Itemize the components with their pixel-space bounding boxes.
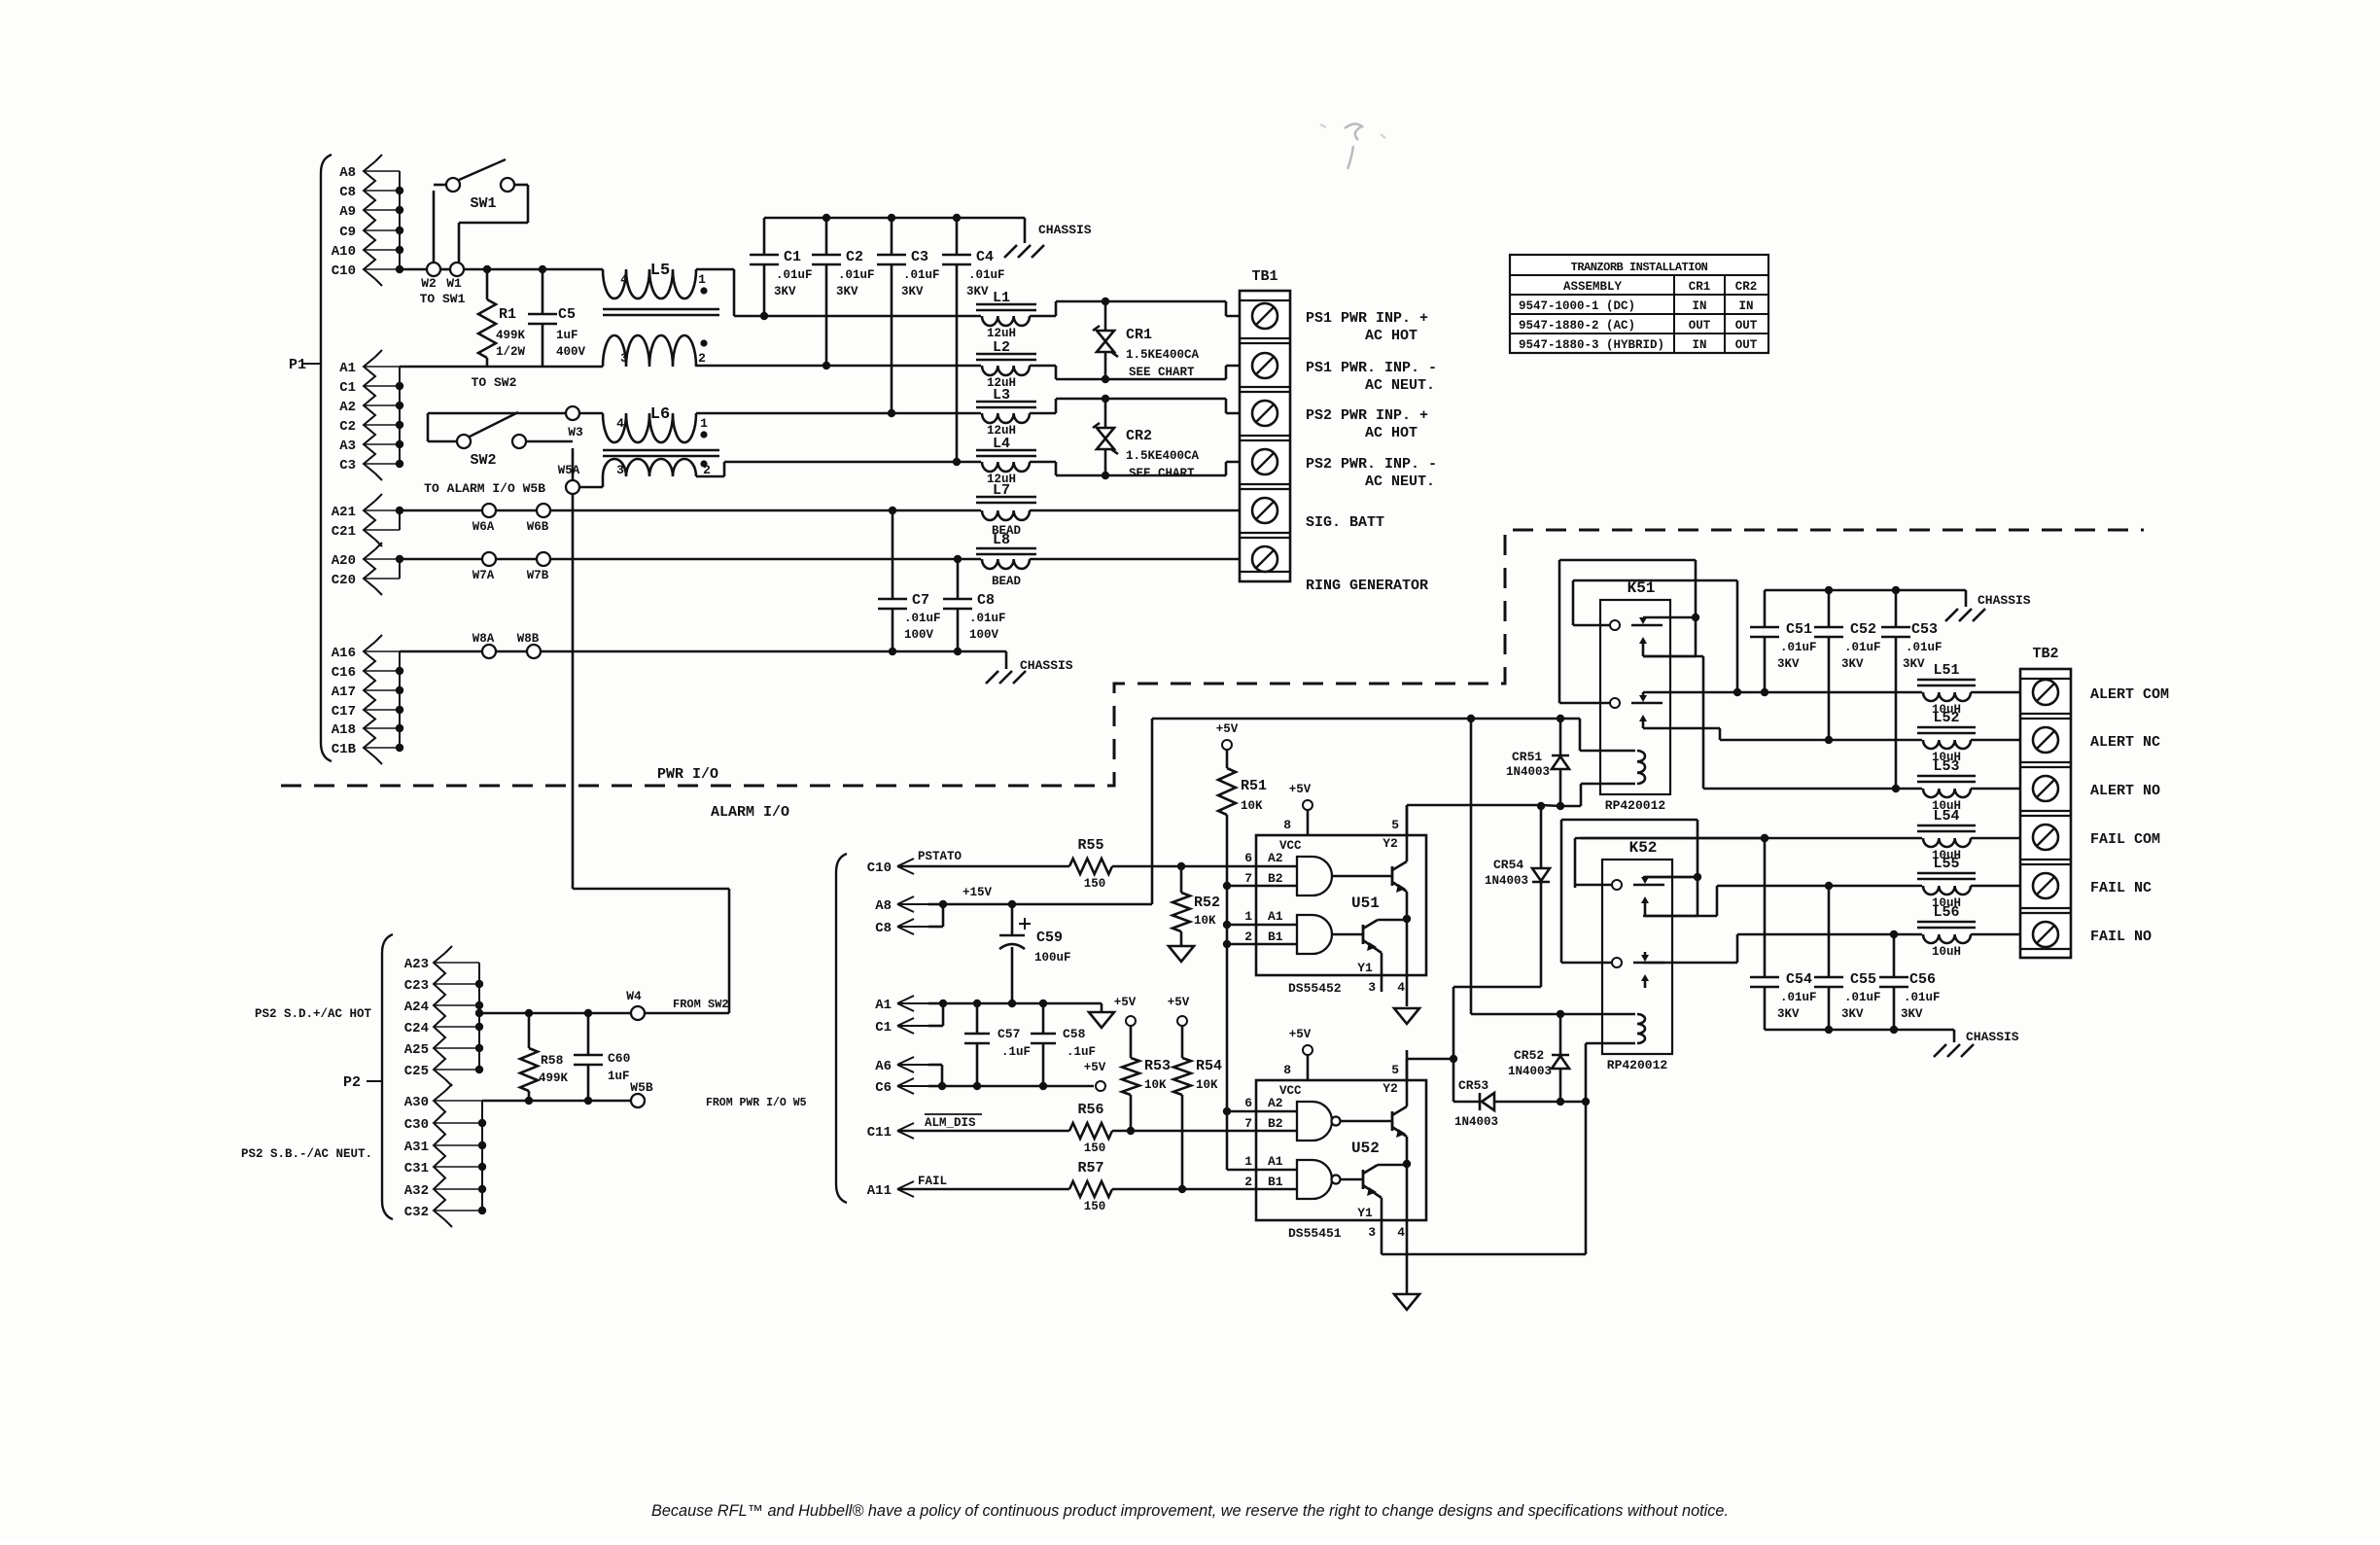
label PSTATO [918,850,962,863]
+5V terminal R53 [1114,996,1137,1026]
svg-text:A3: A3 [339,439,356,454]
svg-text:3KV: 3KV [1901,1007,1923,1021]
ground A1 C1 [1089,1012,1114,1028]
svg-text:R1: R1 [499,306,516,323]
connector P2 bracket right section [836,854,847,1203]
svg-text:B2: B2 [1268,871,1283,886]
svg-text:9547-1000-1 (DC): 9547-1000-1 (DC) [1519,299,1635,313]
svg-text:9547-1880-3 (HYBRID): 9547-1880-3 (HYBRID) [1519,338,1664,352]
label R55 150 [1077,837,1105,891]
svg-text:C2: C2 [339,419,356,435]
label PS2 PWR INP + AC HOT [1306,407,1428,441]
connector P1 pins A16 C16 A17 C17 A18 C1B [332,635,403,764]
wire A16 row [400,648,1006,669]
inductor L51 alert com row [1737,662,2033,717]
svg-text:R58: R58 [541,1053,564,1068]
jumper W1 [446,263,464,291]
svg-text:8: 8 [1283,1063,1291,1077]
label PWR I/O [657,766,718,783]
svg-text:2: 2 [698,351,706,366]
svg-text:L55: L55 [1933,856,1959,872]
svg-text:4: 4 [620,272,628,287]
wire chassis rail under C54-C56 [1765,1026,1954,1042]
svg-text:L56: L56 [1933,904,1959,921]
connector P2 bracket and label [343,934,393,1219]
svg-text:FROM PWR I/O W5: FROM PWR I/O W5 [706,1097,807,1109]
connector P1 pins A20 C20 [332,543,403,595]
svg-text:PS1 PWR INP. +: PS1 PWR INP. + [1306,310,1428,327]
svg-text:C8: C8 [977,592,995,609]
capacitor C7 [878,510,941,651]
wire chassis bus over C51-C53 [1765,586,1966,607]
svg-text:L52: L52 [1933,710,1959,726]
resistor R51 [1218,750,1267,815]
capacitor C2 [812,218,875,366]
wire U52 pin5 riser [1406,1059,1409,1080]
svg-text:1uF: 1uF [556,329,578,342]
wire L1 to TB1 upper rail [1056,298,1252,316]
svg-text:R55: R55 [1077,837,1103,854]
svg-text:SEE CHART: SEE CHART [1129,467,1195,480]
IC U51 DS55452 dual peripheral driver [1244,783,1426,1006]
svg-text:150: 150 [1084,877,1106,891]
relay K51 [1559,560,1699,813]
svg-text:C20: C20 [332,573,356,588]
svg-text:C59: C59 [1036,930,1063,946]
svg-text:CR54: CR54 [1493,858,1523,872]
svg-text:1N4003: 1N4003 [1508,1065,1552,1078]
svg-text:3KV: 3KV [1777,1007,1800,1021]
svg-text:R51: R51 [1241,778,1267,794]
svg-text:1uF: 1uF [608,1070,630,1083]
svg-text:A21: A21 [332,505,356,520]
svg-text:ASSEMBLY: ASSEMBLY [1563,280,1623,294]
svg-text:PS2 PWR INP. +: PS2 PWR INP. + [1306,407,1428,424]
svg-text:A2: A2 [339,400,356,415]
wire W5B row [482,1097,630,1105]
svg-text:C8: C8 [875,921,892,936]
chassis ground right top [1945,593,2031,621]
wire PS2 neut bus [953,458,981,466]
wire L6 pin1 to PS2 bus [696,412,892,415]
svg-text:R53: R53 [1144,1058,1171,1074]
inductor L53 alert no row [1703,758,2033,813]
svg-text:W8B: W8B [517,632,540,646]
wire A6 C6 +5V net [942,1082,1094,1090]
wire L2 to TB1 lower rail [1056,366,1252,383]
svg-text:499K: 499K [539,1071,569,1085]
capacitor C1 [750,218,813,316]
switch SW1 [434,159,528,263]
resistor R1 [478,269,526,367]
svg-text:ALERT COM: ALERT COM [2090,686,2169,703]
svg-text:K52: K52 [1629,839,1658,857]
capacitor C5 [528,269,586,367]
svg-text:1/2W: 1/2W [496,345,526,359]
wire K51 NC2 alert com row [1643,691,1737,694]
svg-text:10K: 10K [1196,1078,1218,1092]
wire L5 pin1 to PS1 bus [734,269,764,316]
wire chassis bus over C1-C4 [764,214,1025,243]
svg-text:.01uF: .01uF [1844,641,1881,654]
chassis ground top [1004,223,1092,258]
svg-text:P1: P1 [289,357,306,373]
svg-text:A16: A16 [332,646,356,661]
capacitor C57 [964,1003,1031,1086]
wire ALM_DIS row with R56 [897,1123,1256,1139]
svg-text:+5V: +5V [1289,1028,1312,1041]
connector P1 pins A8 C8 A9 C9 A10 C10 [332,155,403,286]
svg-text:L6: L6 [650,405,670,424]
svg-text:CR1: CR1 [1689,280,1711,294]
svg-text:C11: C11 [867,1125,892,1141]
svg-text:PSTATO: PSTATO [918,850,962,863]
svg-text:TO ALARM I/O W5B: TO ALARM I/O W5B [424,481,545,496]
svg-text:+5V: +5V [1216,722,1239,736]
svg-text:W6B: W6B [527,520,549,534]
svg-text:W6A: W6A [472,520,495,534]
svg-text:CR2: CR2 [1126,428,1152,444]
svg-text:CHASSIS: CHASSIS [1966,1030,2019,1044]
transformer L5 [603,262,734,367]
resistor R53 [1122,1026,1171,1131]
svg-text:L51: L51 [1933,662,1959,679]
svg-text:L54: L54 [1933,808,1959,825]
svg-text:.01uF: .01uF [1904,991,1941,1004]
connector P1 pins A1 C1 A2 C2 A3 C3 [339,350,403,480]
connector P2 pins A23 C23 A24 C24 A25 C25 [404,946,483,1086]
svg-text:ALM_DIS: ALM_DIS [925,1116,976,1130]
label ALERT COM [2090,686,2169,703]
svg-text:C52: C52 [1850,621,1876,638]
tranzorb CR1 [1093,301,1200,379]
label TO SW2 [472,375,517,390]
jumper W5A and label TO ALARM I/O W5B [424,464,603,496]
svg-text:C7: C7 [912,592,929,609]
svg-text:A30: A30 [404,1095,429,1110]
svg-text:+15V: +15V [962,886,993,899]
wire A1 C1 ground net [943,1000,1102,1012]
svg-text:IN: IN [1692,299,1706,313]
footer notice [651,1502,1729,1520]
terminal block TB2 [2020,646,2071,958]
svg-text:4: 4 [616,416,624,431]
svg-text:A9: A9 [339,204,356,220]
svg-text:CHASSIS: CHASSIS [1977,593,2031,608]
transformer L6 [603,405,719,477]
ground R52 [1169,946,1194,962]
svg-text:5: 5 [1391,818,1399,832]
svg-text:C30: C30 [404,1117,429,1133]
svg-text:R57: R57 [1077,1160,1103,1176]
svg-text:W7B: W7B [527,569,549,582]
wire U51 B2 stub [1227,885,1256,888]
svg-text:1N4003: 1N4003 [1506,765,1550,779]
capacitor C60 [574,1013,631,1101]
svg-text:SW1: SW1 [470,195,496,212]
label ALARM I/O [711,804,789,821]
inductor L4 [976,436,1056,486]
svg-text:C60: C60 [608,1051,631,1066]
svg-text:L5: L5 [650,262,670,280]
svg-text:400V: 400V [556,345,586,359]
label PS1 PWR INP - AC NEUT [1306,360,1437,394]
svg-text:AC HOT: AC HOT [1365,425,1417,441]
capacitor C55 [1814,886,1881,1030]
wire L3 to TB1 upper rail [1056,395,1252,413]
wire R51 to gate inputs [1223,815,1256,1170]
svg-text:9547-1880-2 (AC): 9547-1880-2 (AC) [1519,319,1635,333]
jumper W2 [421,263,440,291]
svg-text:Y1: Y1 [1357,961,1373,975]
svg-text:W7A: W7A [472,569,495,582]
svg-text:TB2: TB2 [2032,646,2058,662]
svg-text:C10: C10 [867,860,892,876]
svg-text:B1: B1 [1268,930,1283,944]
label +15V [962,886,993,899]
wire K52 contact1 common route [1575,834,1768,888]
svg-text:ALERT NC: ALERT NC [2090,734,2160,751]
connector P2 pins A30 C30 A31 C31 A32 C32 [404,1084,486,1227]
svg-text:DS55452: DS55452 [1288,981,1342,996]
svg-text:C2: C2 [846,249,863,265]
svg-text:10K: 10K [1194,914,1216,928]
svg-text:C51: C51 [1786,621,1812,638]
svg-text:1: 1 [1244,1154,1252,1169]
svg-text:.01uF: .01uF [1780,641,1817,654]
svg-text:3KV: 3KV [1841,1007,1864,1021]
wire W3 to L6 pin4 [579,412,603,415]
svg-text:2: 2 [1244,1175,1252,1189]
svg-text:CR51: CR51 [1512,750,1542,764]
svg-text:3: 3 [616,463,624,477]
svg-text:3: 3 [1368,1225,1376,1240]
jumper W8B [517,632,541,658]
wire K52 NC1 link [1643,876,1696,879]
svg-text:150: 150 [1084,1200,1106,1213]
inductor L3 [976,387,1056,438]
resistor R54 [1173,1026,1222,1189]
jumper W5B [630,1080,806,1109]
svg-text:K51: K51 [1627,579,1656,597]
svg-text:CHASSIS: CHASSIS [1038,223,1092,237]
svg-text:.01uF: .01uF [969,612,1006,625]
svg-text:C25: C25 [404,1064,429,1079]
svg-text:W2: W2 [421,276,437,291]
svg-text:.01uF: .01uF [1844,991,1881,1004]
svg-text:4: 4 [1397,980,1405,995]
wire U52 A2 stub [1227,1110,1256,1113]
svg-text:A1: A1 [1268,909,1283,924]
svg-text:C1: C1 [875,1020,892,1036]
svg-text:A18: A18 [332,722,356,738]
svg-text:+5V: +5V [1168,996,1190,1009]
svg-text:CHASSIS: CHASSIS [1020,658,1073,673]
svg-text:SW2: SW2 [470,452,496,469]
svg-text:499K: 499K [496,329,526,342]
diode CR53 1N4003 with row [1453,1078,1590,1129]
jumper W6B [527,504,550,534]
capacitor C56 [1879,934,1941,1030]
capacitor C8 [943,559,1006,651]
svg-text:B2: B2 [1268,1116,1283,1131]
svg-text:.01uF: .01uF [904,612,941,625]
svg-text:C53: C53 [1911,621,1938,638]
inductor L56 fail no row [1737,904,2033,959]
wire FAIL row with R57 [897,1181,1256,1197]
svg-text:+5V: +5V [1084,1061,1106,1074]
label PS2 SB-/AC NEUT [241,1147,372,1161]
svg-text:150: 150 [1084,1141,1106,1155]
svg-text:+5V: +5V [1114,996,1137,1009]
svg-text:C17: C17 [332,704,356,720]
wire A20 ring row [400,555,981,563]
svg-text:C23: C23 [404,978,429,994]
svg-text:C31: C31 [404,1161,429,1176]
svg-text:FAIL COM: FAIL COM [2090,831,2160,848]
svg-text:A1: A1 [1268,1154,1283,1169]
svg-text:C16: C16 [332,665,356,681]
capacitor C53 [1881,590,1942,789]
capacitor C54 [1750,838,1817,1030]
svg-text:8: 8 [1283,818,1291,832]
svg-text:Y1: Y1 [1357,1206,1373,1220]
svg-text:.01uF: .01uF [1906,641,1942,654]
svg-text:C55: C55 [1850,971,1876,988]
resistor R58 [520,1013,569,1101]
pin C11 [867,1123,942,1141]
wire A1 bus to L5 pin3 [400,366,603,369]
label PS2 PWR INP - AC NEUT [1306,456,1437,490]
svg-text:L8: L8 [993,532,1010,548]
svg-text:1: 1 [700,416,708,431]
svg-text:FAIL: FAIL [918,1175,947,1188]
svg-text:6: 6 [1244,1096,1252,1110]
jumper W7A [472,552,496,582]
inductor L54 fail com row [1581,808,2033,862]
diode CR51 1N4003 [1506,719,1569,806]
wire U51 pin5 row [1407,784,1635,810]
svg-text:RP420012: RP420012 [1605,798,1666,813]
svg-text:SEE CHART: SEE CHART [1129,366,1195,379]
ground U52 pin4 [1394,1251,1419,1310]
jumper W6A [472,504,496,534]
svg-text:3: 3 [1368,980,1376,995]
svg-text:TB1: TB1 [1251,268,1277,285]
table TRANZORB INSTALLATION [1510,255,1768,353]
svg-text:A32: A32 [404,1183,429,1199]
wire A21 sig batt row [400,507,981,514]
inductor L1 [976,290,1056,340]
capacitor C59 polarized [999,904,1071,1003]
svg-text:3KV: 3KV [836,285,858,298]
jumper W7B [527,552,550,582]
label RING GENERATOR [1306,578,1428,594]
jumper W8A [472,632,496,658]
label R57 150 [1077,1160,1105,1213]
wire U51 pin5 to relay row [1406,805,1409,835]
svg-text:A1: A1 [339,361,356,376]
svg-text:PS2 PWR. INP. -: PS2 PWR. INP. - [1306,456,1437,473]
wire K52 NO1 fail nc route [1643,886,1717,916]
svg-text:6: 6 [1244,851,1252,865]
svg-text:SIG. BATT: SIG. BATT [1306,514,1384,531]
svg-text:C3: C3 [339,458,356,474]
ground U51 pin4 [1394,1008,1419,1024]
chassis ground right bottom [1934,1030,2019,1057]
svg-text:W3: W3 [568,425,583,439]
svg-text:C6: C6 [875,1080,892,1096]
svg-text:C9: C9 [339,225,356,240]
label FAIL [918,1175,947,1188]
svg-text:C8: C8 [339,185,356,200]
label ALERT NC [2090,734,2160,751]
svg-text:3KV: 3KV [1777,657,1800,671]
svg-text:7: 7 [1244,1116,1252,1131]
svg-text:A1: A1 [875,998,892,1013]
svg-text:C4: C4 [976,249,994,265]
bead L8 [976,532,1252,588]
svg-text:C54: C54 [1786,971,1812,988]
svg-text:1: 1 [1244,909,1252,924]
svg-text:W5B: W5B [630,1080,653,1095]
svg-text:C1: C1 [339,380,356,396]
IC U52 DS55451 dual peripheral driver [1244,1028,1426,1251]
svg-text:TO SW2: TO SW2 [472,375,517,390]
switch SW2 [428,412,573,469]
wire L6 pin2 to PS2 neut bus [696,462,957,476]
svg-text:3KV: 3KV [1841,657,1864,671]
svg-text:100V: 100V [904,628,934,642]
wire +15V net [943,715,1580,908]
svg-text:A24: A24 [404,1000,429,1015]
svg-text:ALERT NO: ALERT NO [2090,783,2160,799]
svg-text:U52: U52 [1351,1140,1380,1157]
svg-text:3KV: 3KV [774,285,796,298]
label R56 150 [1077,1102,1105,1155]
svg-text:CR1: CR1 [1126,327,1152,343]
capacitor C51 [1750,590,1817,692]
svg-text:FAIL NO: FAIL NO [2090,929,2152,945]
svg-text:C24: C24 [404,1021,429,1036]
wire SW2 to W4 riser [573,448,729,1012]
svg-text:3KV: 3KV [1903,657,1925,671]
wire K51 NC1 to NO route [1643,656,1703,789]
svg-text:.01uF: .01uF [903,268,940,282]
tranzorb CR2 [1093,399,1200,480]
wire +15V drop to K52 coil [1471,719,1635,1018]
svg-text:W5A: W5A [558,464,580,477]
svg-text:C10: C10 [332,263,356,279]
svg-text:B1: B1 [1268,1175,1283,1189]
svg-text:A20: A20 [332,553,356,569]
svg-text:A8: A8 [339,165,356,181]
jumper W4 [626,989,728,1020]
wire U51 B1 stub [1227,943,1256,946]
wire K52 NC2 fail no route [1643,934,1737,963]
diode CR52 1N4003 [1508,1014,1569,1102]
svg-text:PS1 PWR. INP. -: PS1 PWR. INP. - [1306,360,1437,376]
label FAIL NC [2090,880,2152,896]
+5V terminal R51 [1216,722,1239,750]
svg-text:C58: C58 [1063,1027,1086,1041]
svg-text:IN: IN [1738,299,1753,313]
svg-text:10uH: 10uH [1932,945,1961,959]
svg-text:RING GENERATOR: RING GENERATOR [1306,578,1428,594]
svg-text:10K: 10K [1144,1078,1167,1092]
svg-text:3KV: 3KV [901,285,924,298]
svg-text:A2: A2 [1268,1096,1283,1110]
